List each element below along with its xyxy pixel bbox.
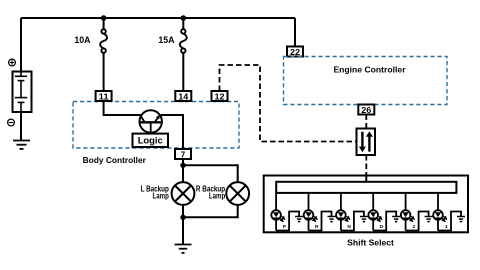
svg-text:26: 26 [361, 106, 372, 115]
svg-text:D: D [380, 224, 384, 230]
svg-text:15A: 15A [158, 35, 175, 45]
connector pin 11 [96, 91, 112, 101]
label Body Controller [83, 155, 147, 165]
wire dashed pin 26 to shift sensor [365, 115, 367, 129]
wire battery to ground [20, 112, 22, 141]
ground battery [13, 141, 30, 149]
svg-text:2: 2 [412, 224, 415, 230]
svg-text:10A: 10A [74, 35, 91, 45]
engine controller box [284, 57, 448, 105]
ground lamp P [295, 217, 303, 222]
ground lamp N [360, 217, 368, 222]
label D [380, 224, 384, 230]
svg-text:Lamp: Lamp [209, 191, 225, 200]
label L Backup Lamp [141, 185, 169, 201]
ground lamp 1 [457, 217, 465, 222]
battery positive terminal [9, 59, 16, 66]
label 10A [74, 35, 91, 45]
wire top bus [21, 17, 295, 19]
node fuse 15A tap [181, 15, 187, 21]
shift select box [264, 176, 468, 233]
lamp 1 branch [433, 193, 461, 231]
wire branch to R lamp [183, 165, 238, 182]
connector pin 22 [287, 47, 303, 57]
node fuse 10A tap [101, 15, 107, 21]
svg-text:12: 12 [215, 92, 226, 101]
svg-text:Body Controller: Body Controller [83, 155, 147, 165]
label R Backup Lamp [196, 185, 225, 201]
lamp R branch [304, 193, 332, 231]
label 2 [412, 224, 415, 230]
body controller box [73, 102, 239, 149]
svg-text:Lamp: Lamp [153, 191, 169, 200]
label Engine Controller [333, 65, 406, 75]
transistor Q1 [140, 110, 162, 133]
logic box U1 [133, 134, 169, 147]
svg-text:7: 7 [181, 150, 186, 159]
lamp R backup [226, 182, 249, 205]
wire dashed pin 12 to shift sensor [220, 65, 357, 142]
wire pin 7 down [182, 159, 184, 182]
label 15A [158, 35, 175, 45]
ground lamp D [392, 217, 400, 222]
wire dashed sensor to shift select [365, 155, 367, 176]
svg-text:Logic: Logic [138, 135, 163, 146]
node backup junction top [180, 163, 185, 168]
svg-text:22: 22 [290, 48, 301, 57]
wire top bus to pin 22 [294, 18, 296, 47]
shift select bus bar [276, 182, 456, 193]
svg-text:Engine Controller: Engine Controller [333, 65, 406, 75]
fuse 15A [180, 18, 187, 91]
lamp 2 branch [401, 193, 429, 231]
node backup junction bottom [180, 215, 185, 220]
label N [347, 224, 351, 230]
wire L lamp down [182, 205, 184, 245]
lamp L backup [172, 182, 195, 205]
lamp P branch [271, 193, 299, 231]
label R [315, 224, 319, 230]
svg-text:11: 11 [99, 92, 110, 101]
lamp N branch [336, 193, 364, 231]
svg-text:N: N [347, 224, 351, 230]
label P [283, 224, 287, 230]
ground backup lamps [175, 245, 192, 253]
shift position sensor [357, 129, 376, 156]
wire transistor to pin 7 [161, 115, 183, 149]
wire tick into bus [365, 177, 367, 183]
lamp D branch [368, 193, 396, 231]
svg-text:R: R [315, 224, 319, 230]
ground lamp R [328, 217, 336, 222]
battery [13, 72, 32, 113]
connector pin 14 [175, 91, 191, 101]
wire battery top [20, 18, 22, 72]
svg-text:1: 1 [445, 224, 448, 230]
wire R lamp down [183, 205, 238, 218]
connector pin 26 [358, 105, 374, 115]
battery negative terminal [8, 119, 15, 126]
connector pin 12 [212, 91, 228, 101]
svg-text:Shift Select: Shift Select [347, 238, 394, 248]
connector pin 7 [175, 149, 191, 159]
svg-text:14: 14 [178, 92, 189, 101]
fuse 10A [100, 18, 107, 91]
label Shift Select [347, 238, 394, 248]
ground lamp 2 [425, 217, 433, 222]
wire pin 11 to transistor [104, 101, 141, 115]
label 1 [445, 224, 448, 230]
